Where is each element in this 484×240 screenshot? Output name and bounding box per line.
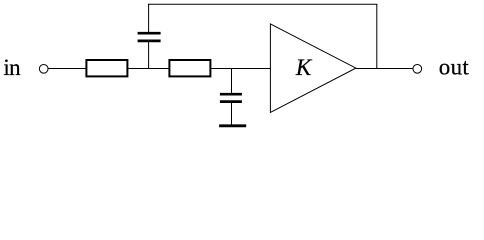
feedback right drop wire (376, 4, 378, 68)
wire amp to output (356, 68, 413, 70)
wire input to R1 (48, 68, 86, 70)
wire C2 to ground (231, 102, 233, 126)
svg-text:out: out (439, 55, 470, 80)
wire R2 to amp (211, 68, 270, 70)
input terminal (39, 64, 48, 73)
svg-text:K: K (295, 55, 313, 80)
wire R1 to R2 (128, 68, 169, 70)
node A riser wire to C1 (148, 41, 150, 69)
feedback top wire (148, 3, 377, 5)
resistor R1 (86, 60, 127, 76)
wire C1 top riser (148, 4, 150, 34)
ground (219, 124, 246, 127)
capacitor C1 (138, 33, 161, 41)
capacitor C2 (220, 94, 242, 101)
svg-text:in: in (3, 55, 21, 80)
node B drop wire to C2 (231, 69, 233, 95)
output terminal (413, 64, 422, 73)
op-amp K (270, 24, 356, 113)
resistor R2 (169, 60, 210, 76)
